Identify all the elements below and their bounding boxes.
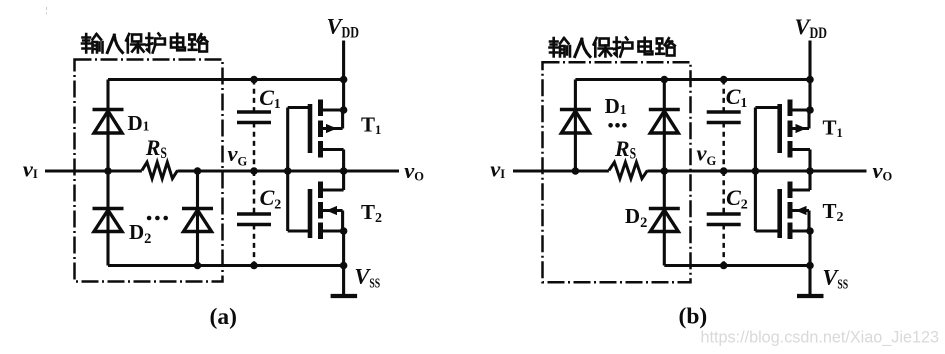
junction bottom rail x VSS lead (b) [806, 262, 814, 270]
ellipsis dots (more diodes) (a) [147, 216, 168, 221]
junction second diode column x input wire (a) [194, 167, 202, 175]
wire: RS to vG node and transistor gates input line (b) [647, 169, 810, 172]
capacitor C1 (a) [237, 112, 271, 123]
junction bottom rail x C2 lead (a) [250, 262, 258, 270]
wire: bottom rail to VSS (a) [108, 264, 344, 267]
diode D2 (a) [93, 209, 124, 232]
junction top rail x VDD lead (b) [806, 76, 814, 84]
junction D1 column x input wire (b) [572, 167, 580, 175]
wire: VDD rail down to T1 source (b) [808, 80, 811, 111]
junction T2 source/body node (a) [340, 227, 348, 235]
svg-text:(b): (b) [679, 304, 708, 330]
wire: RS to vG node and transistor gates input line (a) [178, 169, 344, 172]
wire: input vI to resistor RS (b) [513, 169, 609, 172]
resistor RS (a) [142, 162, 178, 178]
label 输入保护电路 (a) [82, 34, 207, 53]
transistor T1 PMOS (a) [310, 100, 344, 172]
ellipsis dots (more diodes) (b) [608, 123, 626, 128]
dashed lead: C2 column (b) [722, 171, 725, 214]
scan speck [46, 7, 48, 15]
diode D1 (b) [560, 110, 591, 134]
junction bottom rail x C2 lead (b) [720, 262, 728, 270]
wire: output node to vO (b) [810, 169, 867, 172]
diode D2' bottom diode (a) [182, 209, 213, 232]
junction node vG x capacitor column (b) [720, 167, 728, 175]
wire: diode column at x=575.4 (b) [574, 80, 577, 172]
wire: top rail to VDD (b) [575, 78, 810, 81]
junction bottom rail x VSS lead (a) [340, 262, 348, 270]
junction output node vO (b) [806, 167, 814, 175]
wire: diode column at x=197.5 (a) [196, 171, 199, 266]
junction top rail x right diode column (b) [661, 76, 669, 84]
label 输入保护电路 (b) [550, 38, 675, 57]
capacitor C2 (b) [707, 214, 741, 225]
dashed lead: C2 column (a) [253, 171, 256, 214]
ground symbol (b) [797, 266, 824, 297]
wire: output node to vO (a) [344, 169, 399, 172]
wire: diode column at x=108 (a) [106, 80, 109, 266]
dashed lead: C1 column (a) [253, 80, 256, 113]
transistor T1 PMOS (b) [780, 100, 810, 172]
capacitor C2 (a) [237, 214, 271, 225]
junction output node vO (a) [340, 167, 348, 175]
junction T1 source/body node (a) [340, 106, 348, 114]
junction T1 source/body node (b) [806, 106, 814, 114]
resistor RS (b) [609, 162, 648, 178]
wire: VDD lead (a) [342, 41, 345, 80]
wire: input vI to resistor RS (a) [45, 169, 142, 172]
wire: bottom rail to VSS (b) [664, 264, 810, 267]
transistor T2 NMOS (a) [310, 171, 344, 266]
dashed lead: C1 column (b) [722, 80, 725, 113]
wire: gate feed column vG to T1/T2 gates (b) [754, 108, 757, 232]
ground symbol (a) [331, 266, 358, 297]
junction node vG x capacitor column (a) [250, 167, 258, 175]
diode D1' second top diode (b) [649, 110, 680, 134]
junction top rail x VDD lead (a) [340, 76, 348, 84]
junction D1/D2 column x input wire (a) [104, 167, 112, 175]
wire: diode column at x=664.3 (b) [663, 80, 666, 266]
junction top rail x C1 lead (b) [720, 76, 728, 84]
capacitor C1 (b) [707, 112, 741, 123]
junction T2 source/body node (b) [806, 227, 814, 235]
dash-dot box input-protection boundary (b) [543, 62, 691, 282]
wire: gate feed column vG to T1/T2 gates (a) [286, 108, 289, 232]
dash-dot box input-protection boundary (a) [75, 60, 223, 282]
wire: top rail to VDD (a) [108, 78, 344, 81]
diode D2 bottom diode (b) [649, 209, 680, 232]
junction top rail x C1 lead (a) [250, 76, 258, 84]
junction right diode column x input wire (b) [661, 167, 669, 175]
diode D1 (a) [93, 110, 124, 134]
wire: VDD lead (b) [808, 41, 811, 80]
junction vG x gate feed column (b) [752, 167, 760, 175]
svg-text:(a): (a) [210, 304, 237, 330]
junction bottom rail x second diode (a) [194, 262, 202, 270]
svg-text:https://blog.csdn.net/Xiao_Jie: https://blog.csdn.net/Xiao_Jie123 [701, 328, 939, 346]
wire: VDD rail down to T1 source (a) [342, 80, 345, 111]
transistor T2 NMOS (b) [780, 171, 810, 266]
junction vG x gate feed column (a) [284, 167, 292, 175]
